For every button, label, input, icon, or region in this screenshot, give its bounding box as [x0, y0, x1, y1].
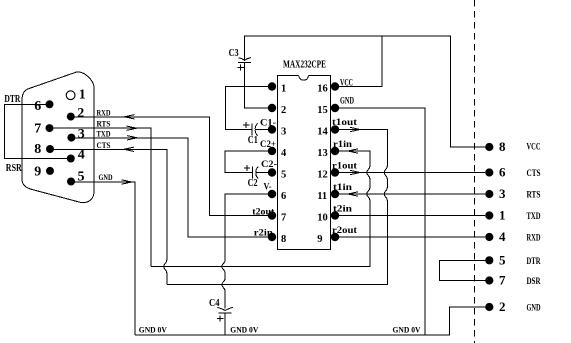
arrow on r1out pointing right [350, 170, 360, 174]
IC pin 12 r1out [317, 168, 339, 180]
wire IC pin13 r1in to line A [151, 151, 370, 267]
svg-text:t2in: t2in [333, 205, 353, 215]
svg-text:GND 0V: GND 0V [230, 326, 258, 335]
svg-text:GND: GND [99, 172, 113, 182]
svg-text:r2in: r2in [254, 228, 274, 238]
wire C3 to IC pin2 [245, 63, 272, 108]
plus sign of C3 [237, 64, 243, 70]
arrow on RTS pointing right [127, 126, 137, 130]
IC pin 5 C2- [268, 168, 286, 180]
svg-text:6: 6 [499, 165, 506, 180]
svg-text:r1out: r1out [332, 162, 358, 172]
header pin 7 DSR [485, 273, 541, 288]
header pin 1 TXD [485, 208, 541, 223]
header pin 8 VCC [485, 139, 540, 154]
svg-text:4: 4 [499, 229, 506, 244]
svg-text:C3: C3 [229, 48, 239, 59]
svg-text:3: 3 [281, 127, 286, 138]
DB9 pin 9 [34, 165, 54, 180]
svg-text:12: 12 [317, 170, 328, 181]
svg-text:9: 9 [317, 234, 322, 245]
svg-text:7: 7 [281, 213, 286, 224]
IC pin 7 t2out [268, 211, 286, 223]
svg-text:6: 6 [34, 99, 41, 114]
svg-text:15: 15 [317, 105, 328, 116]
svg-text:7: 7 [34, 121, 41, 136]
svg-text:C1: C1 [248, 135, 258, 146]
header pin 2 GND [485, 299, 541, 314]
svg-text:8: 8 [499, 139, 506, 154]
capacitor C4 straight plate [219, 312, 232, 314]
svg-text:13: 13 [317, 148, 328, 159]
wire C1 curved plate to IC pin3 [255, 129, 268, 131]
svg-text:V-: V- [264, 182, 272, 192]
arrow on t1out pointing right [350, 127, 360, 131]
svg-text:9: 9 [34, 165, 41, 180]
svg-text:14: 14 [317, 127, 328, 138]
svg-text:GND: GND [527, 303, 541, 313]
arrow on r1in pointing left [348, 149, 358, 153]
wire IC pin10 t2in to header TXD [335, 215, 485, 217]
svg-text:8: 8 [281, 234, 286, 245]
svg-text:RXD: RXD [97, 107, 111, 117]
svg-text:RXD: RXD [527, 233, 541, 243]
svg-text:t2out: t2out [252, 208, 275, 218]
plus sign of C2 [244, 165, 250, 171]
wire DTR-DSR loop on header [440, 260, 486, 280]
wire DTR bracket pin6 to pin4 [5, 104, 71, 158]
DB9 pin 6 [34, 99, 53, 114]
wire IC pin16 VCC riser to top rail [335, 36, 382, 86]
plus sign of C1 [243, 122, 249, 128]
dashed boundary line [474, 0, 476, 343]
IC pin 8 r2in [268, 233, 286, 245]
header pin 4 RXD [485, 229, 541, 244]
svg-text:t1in: t1in [333, 183, 353, 193]
svg-text:16: 16 [317, 84, 328, 95]
svg-text:DTR: DTR [527, 256, 541, 266]
svg-text:6: 6 [281, 191, 286, 202]
svg-text:8: 8 [34, 142, 41, 157]
IC notch [299, 76, 309, 81]
svg-text:VCC: VCC [527, 142, 541, 152]
DB9 pin 4 [67, 148, 85, 163]
header pin 5 DTR [485, 252, 541, 267]
svg-text:2: 2 [77, 106, 84, 121]
svg-text:2: 2 [281, 105, 286, 116]
DB9 pin 5 [67, 170, 85, 186]
svg-text:TXD: TXD [97, 128, 111, 138]
DB9 pin 1 [66, 88, 86, 103]
wire IC pin12 r1out to header CTS [335, 172, 485, 174]
IC pin 11 t1in [317, 190, 339, 202]
capacitor C3 curved plate [238, 58, 251, 61]
IC pin 9 r2out [317, 233, 339, 245]
IC pin 14 t1out [317, 125, 339, 137]
wire IC pin15 GND to ground rail [335, 108, 425, 335]
svg-text:C4: C4 [209, 298, 220, 309]
IC pin 16 VCC [317, 82, 339, 94]
DB9 pin 8 [34, 142, 54, 157]
svg-text:C2-: C2- [261, 160, 277, 170]
arrow on CTS pointing left [124, 147, 134, 151]
svg-text:DSR: DSR [527, 276, 541, 286]
svg-text:1: 1 [499, 208, 506, 223]
capacitor C3 straight plate [238, 62, 251, 64]
wire IC pin1 to capacitor C1 left plate [225, 87, 272, 130]
DB9 pin 3 [67, 127, 84, 142]
svg-text:3: 3 [78, 127, 85, 142]
svg-text:r2out: r2out [332, 226, 358, 236]
plus sign of C4 [217, 315, 223, 321]
svg-text:11: 11 [317, 191, 327, 202]
arrow on TXD pointing right [127, 136, 137, 140]
svg-text:10: 10 [317, 213, 328, 224]
IC pin 3 C1- [268, 125, 286, 137]
svg-text:5: 5 [281, 170, 286, 181]
arrow on RXD pointing left [125, 115, 135, 119]
IC pin 6 V- [268, 190, 286, 202]
svg-text:GND 0V: GND 0V [393, 326, 421, 335]
arrow on GND pointing right [122, 180, 132, 184]
svg-text:TXD: TXD [527, 211, 541, 221]
capacitor C1 straight plate [251, 124, 253, 136]
IC pin 4 C2+ [268, 147, 287, 159]
svg-text:CTS: CTS [97, 140, 111, 150]
wire VCC top rail from C3 to right drop [245, 36, 486, 147]
capacitor C1 curved plate [255, 124, 257, 136]
arrow on t1in pointing left [348, 192, 358, 196]
svg-text:4: 4 [281, 148, 287, 159]
svg-text:DTR: DTR [4, 94, 21, 105]
DB9 connector shell [22, 72, 94, 203]
wire IC pin6 V- to C4 and ground rail with jogs over line A and line B [222, 194, 272, 335]
svg-text:1: 1 [281, 84, 286, 95]
wire RXD : DB9 pin2 to MAX232 pin7 t2out [71, 117, 268, 216]
DB9 pin 7 [34, 121, 53, 136]
svg-text:7: 7 [499, 273, 506, 288]
wire C2 curved plate to IC pin5 [256, 172, 268, 174]
header pin 3 RTS [485, 186, 540, 201]
wire IC pin9 r2out to header RXD [335, 236, 485, 238]
svg-text:3: 3 [499, 186, 506, 201]
svg-text:t1out: t1out [332, 118, 358, 128]
wire RTS : DB9 pin7 to line A riser [50, 128, 152, 266]
capacitor C2 straight plate [252, 167, 254, 179]
svg-text:RTS: RTS [527, 190, 541, 200]
svg-text:RTS: RTS [97, 119, 111, 129]
wire TXD : DB9 pin3 to MAX232 pin8 r2in [71, 138, 268, 237]
svg-text:C2: C2 [248, 178, 258, 189]
DB9 pin 2 [67, 106, 85, 121]
wire IC pin11 t1in to header RTS [335, 193, 485, 195]
wire GND : DB9 pin5 to ground rail [71, 182, 135, 335]
capacitor C2 curved plate [256, 167, 258, 179]
wire IC pin4 to capacitor C2 left plate [225, 151, 272, 173]
svg-text:2: 2 [499, 299, 506, 314]
IC pin 1 C1+ [268, 82, 286, 94]
svg-text:C1-: C1- [260, 118, 276, 128]
svg-text:5: 5 [499, 252, 506, 267]
header pin 6 CTS [485, 165, 540, 180]
svg-text:C2+: C2+ [260, 140, 276, 150]
svg-text:GND 0V: GND 0V [139, 326, 167, 335]
svg-text:MAX232CPE: MAX232CPE [283, 60, 326, 71]
IC pin 2 V+ [268, 104, 286, 116]
svg-text:CTS: CTS [527, 168, 541, 178]
IC pin 13 r1in [317, 147, 339, 159]
wire CTS : DB9 pin8 to line B riser with jog over line A [50, 149, 167, 284]
svg-text:GND: GND [340, 97, 354, 107]
svg-text:1: 1 [79, 88, 86, 103]
capacitor C4 curved plate [217, 307, 233, 310]
svg-text:r1in: r1in [333, 140, 353, 150]
wire IC pin14 t1out to line B [167, 130, 387, 285]
IC pin 10 t2in [317, 211, 339, 223]
IC pin 15 GND [317, 104, 339, 116]
ground rail GND 0V [135, 307, 486, 335]
svg-text:RSR: RSR [6, 163, 23, 174]
IC U1 MAX232CPE body [278, 76, 331, 250]
